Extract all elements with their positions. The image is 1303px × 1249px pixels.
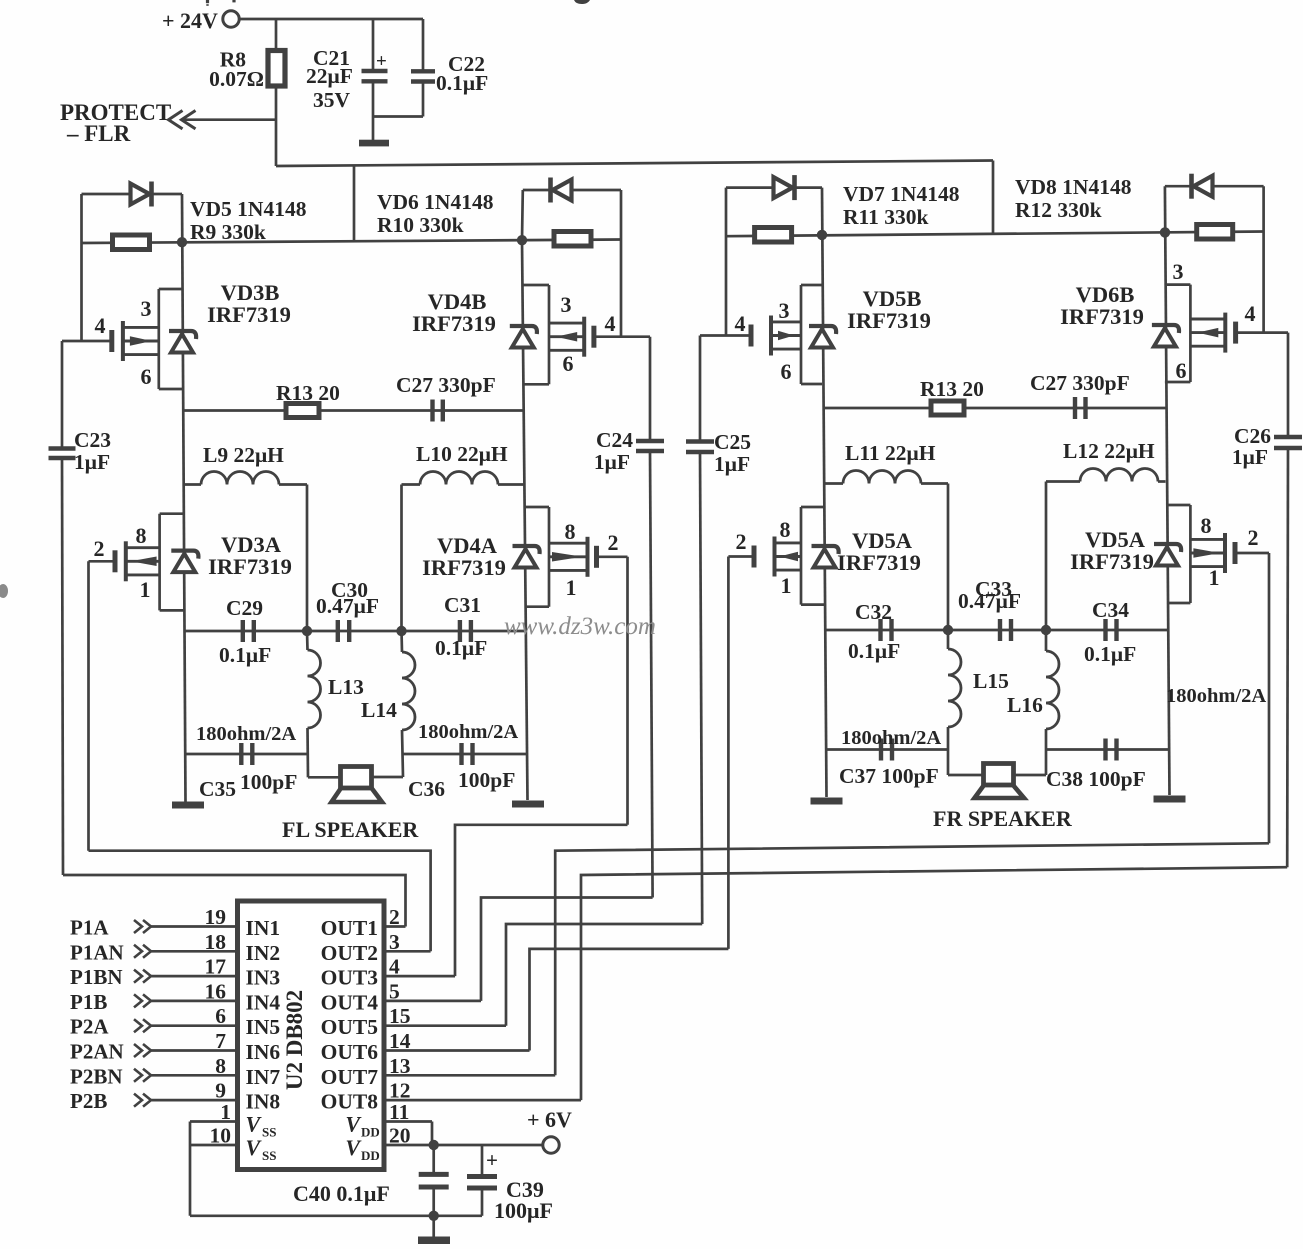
svg-text:OUT4: OUT4 — [321, 990, 379, 1014]
svg-text:1: 1 — [566, 575, 577, 600]
pin 20 (VDD) — [345, 1124, 433, 1164]
wire input P2B to pin 9 — [151, 1099, 238, 1102]
wire rail drop to FL power row — [353, 166, 356, 242]
svg-text:V: V — [246, 1135, 263, 1160]
svg-text:SS: SS — [262, 1148, 276, 1163]
pin 3 (OUT2) — [384, 930, 431, 954]
IC pin name OUT1 — [321, 916, 378, 940]
svg-text:IN4: IN4 — [246, 990, 281, 1014]
pin 18 (IN2) — [205, 930, 227, 954]
svg-text:R9 330k: R9 330k — [190, 220, 266, 244]
svg-text:100pF: 100pF — [240, 770, 297, 794]
svg-text:3: 3 — [141, 296, 152, 321]
svg-text:OUT5: OUT5 — [321, 1015, 378, 1039]
node input P2AN — [70, 1040, 151, 1064]
svg-text:IN8: IN8 — [246, 1090, 281, 1114]
wire VD5/R9 left leg — [80, 194, 83, 341]
pin 17 (IN3) — [205, 955, 227, 979]
svg-text:C37 100pF: C37 100pF — [839, 764, 939, 788]
capacitor C30 0.47uF — [307, 578, 402, 642]
svg-text:C27 330pF: C27 330pF — [396, 373, 496, 397]
svg-text:1μF: 1μF — [714, 452, 750, 476]
svg-text:IRF7319: IRF7319 — [847, 308, 931, 333]
scan artifact: cropped Q glyph top right — [574, 0, 590, 4]
pin 2 (OUT1) — [384, 905, 406, 929]
wire VD6/R10 right leg — [620, 190, 623, 337]
capacitor C22 — [373, 19, 488, 117]
node input P1B — [70, 990, 151, 1014]
svg-text:OUT3: OUT3 — [321, 966, 379, 990]
wire OUT5 to C25/VD5B gate — [506, 924, 702, 1026]
wire input P2BN to pin 8 — [151, 1074, 238, 1077]
svg-text:DD: DD — [361, 1125, 380, 1140]
svg-text:2: 2 — [736, 529, 747, 554]
inductor L14 — [361, 631, 415, 777]
svg-text:IN7: IN7 — [246, 1065, 281, 1089]
wire input P2A to pin 6 — [151, 1024, 238, 1027]
svg-text:100μF: 100μF — [494, 1198, 553, 1223]
inductor L13 — [307, 631, 364, 777]
ground main — [418, 1216, 450, 1244]
svg-text:C27 330pF: C27 330pF — [1030, 371, 1130, 395]
capacitor C37 100pF — [826, 727, 948, 788]
svg-text:8: 8 — [1201, 513, 1212, 538]
svg-text:3: 3 — [779, 298, 790, 323]
svg-text:C36: C36 — [408, 777, 445, 801]
pin 15 (OUT5) — [384, 1004, 506, 1028]
svg-text:0.1μF: 0.1μF — [848, 639, 900, 663]
resistor R8 — [209, 19, 285, 166]
wire input P2AN to pin 7 — [151, 1049, 238, 1052]
diode VD8 1N4148 — [1015, 174, 1264, 222]
wire FL power row — [82, 240, 622, 244]
pin 13 (OUT7) — [384, 1054, 555, 1078]
svg-text:2: 2 — [1248, 525, 1259, 550]
junction: VDD node — [429, 1140, 439, 1150]
wire OUT3 to VD4A gate — [455, 825, 628, 976]
svg-text:C38 100pF: C38 100pF — [1046, 767, 1146, 791]
ground FL left — [172, 802, 204, 809]
svg-text:22μF: 22μF — [306, 64, 353, 88]
svg-text:16: 16 — [205, 979, 227, 1003]
capacitor C34 0.1uF — [1046, 598, 1168, 666]
svg-text:L11 22μH: L11 22μH — [845, 441, 936, 465]
transistor VD3B IRF7319 (P-ch top, bridge1) — [62, 280, 291, 389]
svg-text:6: 6 — [1176, 358, 1187, 383]
svg-text:IN1: IN1 — [246, 916, 281, 940]
IC pin name IN5 — [246, 1015, 281, 1039]
svg-text:L12 22μH: L12 22μH — [1063, 439, 1155, 463]
resistor R9 — [113, 235, 150, 250]
capacitor C26 — [1232, 333, 1302, 868]
inductor L11 22uH — [824, 441, 948, 630]
wire VDD tie — [431, 1122, 434, 1146]
IC pin name IN6 — [246, 1040, 281, 1064]
svg-text:L13: L13 — [328, 675, 364, 699]
wire OUT8 to C26/VD6B gate — [581, 867, 1287, 1100]
resistor R11 — [755, 228, 792, 243]
svg-text:1: 1 — [781, 573, 792, 598]
svg-text:1: 1 — [1209, 565, 1220, 590]
svg-text:L15: L15 — [973, 669, 1009, 693]
svg-text:L14: L14 — [361, 698, 397, 722]
capacitor C33 0.47uF — [948, 577, 1046, 641]
IC pin name OUT8 — [321, 1090, 379, 1114]
svg-text:0.1μF: 0.1μF — [1084, 642, 1136, 666]
svg-text:6: 6 — [781, 359, 792, 384]
svg-text:8: 8 — [215, 1054, 226, 1078]
ground for C21/C22 — [359, 140, 389, 147]
node input P2BN — [70, 1064, 151, 1088]
transistor VD5B IRF7319 (P-ch top, bridge3) — [700, 285, 931, 384]
wire bridge3 main drain line — [822, 188, 827, 797]
watermark www.dz3w.com — [504, 613, 656, 640]
svg-text:OUT8: OUT8 — [321, 1090, 379, 1114]
svg-text:OUT1: OUT1 — [321, 916, 378, 940]
pin 11 (VDD) — [345, 1100, 432, 1140]
svg-text:R12 330k: R12 330k — [1015, 198, 1102, 222]
node +24V supply terminal — [162, 8, 239, 33]
svg-text:P1B: P1B — [70, 990, 107, 1014]
svg-text:0.47μF: 0.47μF — [316, 594, 379, 618]
junction: FR left output node — [943, 625, 953, 635]
wire +24V feed — [239, 18, 423, 21]
svg-text:8: 8 — [565, 519, 576, 544]
capacitor C36 100pF — [402, 721, 528, 801]
svg-text:C31: C31 — [444, 593, 481, 617]
speaker FR — [933, 764, 1073, 832]
svg-text:IN3: IN3 — [246, 966, 281, 990]
junction: bridge4 power node — [1160, 227, 1170, 237]
wire PROTECT-FLR to R8 — [184, 118, 276, 121]
IC pin name OUT6 — [321, 1040, 379, 1064]
IC pin name IN8 — [246, 1090, 281, 1114]
svg-text:P1A: P1A — [70, 916, 109, 940]
svg-text:9: 9 — [215, 1079, 226, 1103]
svg-text:0.1μF: 0.1μF — [435, 636, 487, 660]
svg-text:4: 4 — [735, 311, 746, 336]
pin 9 (IN8) — [215, 1079, 226, 1103]
resistor R10 — [554, 232, 591, 247]
svg-text:OUT2: OUT2 — [321, 941, 378, 965]
svg-text:P1AN: P1AN — [70, 940, 124, 964]
svg-text:FL SPEAKER: FL SPEAKER — [282, 817, 419, 842]
wire OUT7 to VD6A gate — [555, 843, 1269, 1075]
svg-text:4: 4 — [605, 311, 616, 336]
svg-text:IRF7319: IRF7319 — [207, 302, 291, 327]
pin 6 (IN5) — [215, 1004, 226, 1028]
node input P2B — [70, 1089, 151, 1113]
svg-text:1μF: 1μF — [594, 450, 630, 474]
svg-text:IN5: IN5 — [246, 1015, 281, 1039]
svg-text:OUT7: OUT7 — [321, 1065, 379, 1089]
svg-text:35V: 35V — [313, 88, 351, 112]
diode VD7 1N4148 — [726, 175, 960, 229]
resistor R12 — [1197, 225, 1233, 240]
resistor R13 (FL) — [184, 381, 524, 418]
scan artifact: cropped glyphs top left — [206, 0, 234, 6]
IC pin name OUT3 — [321, 966, 379, 990]
svg-text:8: 8 — [136, 523, 147, 548]
svg-text:VD6 1N4148: VD6 1N4148 — [377, 190, 494, 214]
svg-text:– FLR: – FLR — [66, 121, 131, 146]
wire VD3A gate leg — [87, 561, 90, 850]
pin 4 (OUT3) — [384, 955, 455, 979]
svg-text:3: 3 — [561, 292, 572, 317]
pin 12 (OUT8) — [384, 1079, 581, 1103]
wire VD5A gate leg — [727, 557, 730, 949]
svg-text:L10 22μH: L10 22μH — [416, 442, 508, 466]
svg-text:C29: C29 — [226, 596, 263, 620]
svg-text:100pF: 100pF — [458, 768, 515, 792]
pin 10 (VSS) — [190, 1124, 276, 1164]
svg-text:C24: C24 — [596, 428, 633, 452]
junction: FL right output node — [396, 626, 406, 636]
svg-text:DD: DD — [361, 1148, 380, 1163]
svg-text:V: V — [345, 1112, 362, 1137]
svg-text:OUT6: OUT6 — [321, 1040, 379, 1064]
svg-text:18: 18 — [205, 930, 227, 954]
junction: FL left output node — [302, 626, 312, 636]
pin 7 (IN6) — [215, 1029, 226, 1053]
junction: bridge1 power node — [177, 237, 187, 247]
svg-text:4: 4 — [1245, 301, 1256, 326]
svg-text:L9 22μH: L9 22μH — [203, 443, 284, 467]
pin 14 (OUT6) — [384, 1029, 530, 1053]
svg-text:+ 24V: + 24V — [162, 8, 218, 33]
scan artifact: left edge blob — [0, 584, 8, 598]
svg-text:0.1μF: 0.1μF — [436, 71, 488, 95]
IC pin name OUT2 — [321, 941, 378, 965]
wire OUT6 to VD5A gate — [530, 949, 729, 1051]
wire +24V rail (after R8) — [276, 161, 993, 167]
svg-text:R13 20: R13 20 — [920, 377, 984, 401]
IC pin name IN1 — [246, 916, 281, 940]
svg-text:IN2: IN2 — [246, 941, 281, 965]
svg-text:IRF7319: IRF7319 — [422, 555, 506, 580]
svg-text:6: 6 — [141, 364, 152, 389]
svg-text:L16: L16 — [1007, 693, 1043, 717]
capacitor C35 100pF — [185, 723, 307, 801]
resistor R13 (FR) — [824, 377, 1166, 415]
wire input P1B to pin 16 — [151, 1000, 238, 1003]
capacitor C32 0.1uF — [825, 600, 948, 663]
wire VSS tie — [189, 1122, 192, 1216]
svg-text:7: 7 — [215, 1029, 226, 1053]
transistor VD5A IRF7319 (N-ch bottom, bridge3) — [728, 507, 920, 605]
svg-text:U2 DB802: U2 DB802 — [282, 990, 307, 1090]
svg-text:C25: C25 — [714, 430, 751, 454]
svg-text:V: V — [246, 1112, 263, 1137]
wire input P1A to pin 19 — [151, 925, 238, 928]
inductor L9 22uH — [184, 443, 307, 631]
svg-text:IRF7319: IRF7319 — [412, 311, 496, 336]
wire VD3B gate to C23 column — [0, 0, 1, 1]
svg-text:2: 2 — [94, 536, 105, 561]
svg-text:C35: C35 — [199, 777, 236, 801]
capacitor C21 — [306, 19, 388, 140]
svg-text:P2BN: P2BN — [70, 1064, 123, 1088]
node input P1A — [70, 916, 151, 940]
svg-text:17: 17 — [205, 955, 227, 979]
svg-text:1μF: 1μF — [1232, 445, 1268, 469]
svg-text:0.47μF: 0.47μF — [958, 589, 1021, 613]
svg-text:8: 8 — [780, 517, 791, 542]
pin 19 (IN1) — [205, 905, 227, 929]
svg-text:180ohm/2A: 180ohm/2A — [841, 727, 941, 749]
capacitor C29 0.1uF — [185, 596, 307, 667]
svg-text:R11 330k: R11 330k — [843, 205, 928, 229]
wire VD6A gate leg — [1268, 553, 1271, 843]
svg-text:3: 3 — [1173, 259, 1184, 284]
junction: bridge2 power node — [517, 235, 527, 245]
inductor L10 22uH — [402, 442, 524, 631]
wire OUT4 to C24/VD4B gate — [481, 898, 653, 1001]
wire bridge2 main drain line — [522, 240, 528, 800]
diode VD5 1N4148 — [82, 182, 307, 245]
svg-text:19: 19 — [205, 905, 227, 929]
IC pin name IN7 — [246, 1065, 281, 1089]
svg-text:+: + — [486, 1148, 498, 1172]
transistor VD3A IRF7319 (N-ch bottom, bridge1) — [89, 514, 292, 611]
wire FR power row — [726, 232, 1264, 237]
svg-text:VD8 1N4148: VD8 1N4148 — [1015, 175, 1132, 199]
wire VSS/ground return row — [190, 1214, 482, 1217]
pin 16 (IN4) — [205, 979, 227, 1003]
svg-text:C32: C32 — [855, 600, 892, 624]
svg-text:FR SPEAKER: FR SPEAKER — [933, 806, 1073, 831]
svg-text:VD7 1N4148: VD7 1N4148 — [843, 182, 960, 206]
junction: ground node — [429, 1211, 439, 1221]
junction: bridge3 power node — [817, 230, 827, 240]
node input P2A — [70, 1015, 151, 1039]
svg-text:180ohm/2A: 180ohm/2A — [196, 723, 296, 745]
svg-text:P2A: P2A — [70, 1015, 109, 1039]
svg-text:IN6: IN6 — [246, 1040, 281, 1064]
svg-text:C40 0.1μF: C40 0.1μF — [293, 1181, 390, 1206]
pin 1 (VSS) — [190, 1100, 276, 1140]
wire OUT1 to C23/VD3B gate — [63, 875, 406, 927]
wire bridge1 main drain line — [182, 194, 186, 802]
wire input P1BN to pin 17 — [151, 975, 238, 978]
svg-text:4: 4 — [95, 313, 106, 338]
svg-text:+: + — [376, 51, 387, 72]
transistor VD6B IRF7319 (P-ch top, bridge4) — [1060, 259, 1288, 383]
svg-text:180ohm/2A: 180ohm/2A — [418, 721, 518, 743]
svg-text:SS: SS — [262, 1125, 276, 1140]
svg-text:www.dz3w.com: www.dz3w.com — [504, 613, 656, 640]
capacitor C27 330pF (FL) — [396, 373, 496, 422]
svg-text:P1BN: P1BN — [70, 965, 123, 989]
transistor VD4A IRF7319 (N-ch bottom, bridge2) — [422, 507, 627, 607]
svg-text:0.07Ω: 0.07Ω — [209, 67, 264, 91]
svg-text:0.1μF: 0.1μF — [219, 643, 271, 667]
svg-text:C34: C34 — [1092, 598, 1129, 622]
svg-text:6: 6 — [215, 1004, 226, 1028]
svg-text:P2B: P2B — [70, 1089, 107, 1113]
svg-text:IRF7319: IRF7319 — [837, 550, 921, 575]
svg-text:IRF7319: IRF7319 — [1060, 304, 1144, 329]
ground FL right — [512, 801, 544, 808]
IC pin name IN4 — [246, 990, 281, 1014]
transistor VD4B IRF7319 (P-ch top, bridge2) — [412, 285, 650, 384]
capacitor C27 330pF (FR) — [1030, 371, 1130, 419]
inductor L15 — [948, 630, 1009, 775]
IC pin name OUT7 — [321, 1065, 379, 1089]
wire input P1AN to pin 18 — [151, 950, 238, 953]
svg-text:C23: C23 — [74, 428, 111, 452]
capacitor C38 100pF — [1046, 685, 1266, 791]
capacitor C39 100uF — [467, 1145, 553, 1223]
IC pin name IN2 — [246, 941, 281, 965]
svg-text:IRF7319: IRF7319 — [1070, 549, 1154, 574]
capacitor C23 — [49, 341, 112, 875]
node PROTECT-FLR — [60, 100, 196, 146]
svg-text:1μF: 1μF — [74, 450, 110, 474]
inductor L16 — [1007, 630, 1059, 775]
transistor VD6A IRF7319 (N-ch bottom, bridge4) — [1070, 505, 1269, 603]
svg-text:2: 2 — [608, 530, 619, 555]
svg-text:R13 20: R13 20 — [276, 381, 340, 405]
svg-text:+ 6V: + 6V — [527, 1107, 572, 1132]
IC pin name OUT4 — [321, 990, 379, 1014]
node +6V supply terminal — [527, 1107, 572, 1153]
capacitor C24 — [594, 337, 664, 898]
svg-text:IRF7319: IRF7319 — [208, 554, 292, 579]
junction: FR right output node — [1041, 625, 1051, 635]
diode VD6 1N4148 — [377, 178, 621, 241]
node input P1BN — [70, 965, 151, 989]
op-amp U2 DB802 (driver IC body) — [238, 901, 385, 1170]
svg-text:P2AN: P2AN — [70, 1040, 124, 1064]
capacitor C40 0.1uF — [293, 1145, 449, 1216]
capacitor C31 0.1uF — [402, 593, 527, 660]
node input P1AN — [70, 940, 151, 964]
wire OUT2 to VD3A gate — [89, 851, 431, 952]
IC pin name OUT5 — [321, 1015, 378, 1039]
wire VD4A gate leg — [626, 557, 629, 825]
ground FR right — [1154, 796, 1186, 803]
pin 5 (OUT4) — [384, 979, 481, 1003]
svg-text:V: V — [345, 1135, 362, 1160]
svg-text:180ohm/2A: 180ohm/2A — [1166, 685, 1266, 707]
wire VD7/R11 left leg — [725, 188, 728, 336]
wire rail drop to FR power row — [992, 161, 995, 234]
speaker FL — [282, 767, 419, 843]
svg-text:VD5 1N4148: VD5 1N4148 — [190, 197, 307, 221]
pin 8 (IN7) — [215, 1054, 226, 1078]
ground FR left — [811, 798, 843, 805]
IC pin name IN3 — [246, 966, 281, 990]
svg-text:1: 1 — [140, 577, 151, 602]
svg-text:6: 6 — [563, 351, 574, 376]
wire VD8/R12 right leg — [1262, 186, 1265, 332]
inductor L12 22uH — [1046, 439, 1166, 630]
capacitor C25 — [686, 336, 751, 925]
wire bridge4 main drain line — [1165, 186, 1170, 795]
svg-text:R10 330k: R10 330k — [377, 213, 464, 237]
wire +6V feed — [434, 1144, 543, 1147]
